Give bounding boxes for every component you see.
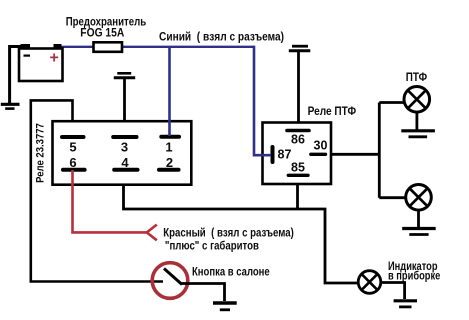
ground (indicator) xyxy=(394,301,417,307)
wire: button to ground xyxy=(181,284,225,302)
wire: pin 30 to lamps junction xyxy=(330,153,379,156)
pin 4 xyxy=(114,155,137,170)
svg-text:FOG 15A: FOG 15A xyxy=(80,27,124,39)
ground (button) xyxy=(213,303,237,310)
svg-text:4: 4 xyxy=(121,155,129,170)
wire: junction to lamp 2 xyxy=(379,196,406,199)
ground (lamp 1) xyxy=(401,131,435,137)
wire: junction to lamp 1 xyxy=(379,101,405,104)
svg-text:85: 85 xyxy=(291,161,305,175)
wire: indicator to ground xyxy=(381,283,405,300)
svg-text:3: 3 xyxy=(121,140,128,155)
relay K2 ПТФ box xyxy=(263,123,332,185)
wire: blue drop to relay ПТФ pin 87 xyxy=(254,46,271,156)
pin 86 xyxy=(287,131,309,147)
pin 30 xyxy=(311,139,328,155)
wire: pin 3 up to power tap xyxy=(123,79,126,137)
svg-text:87: 87 xyxy=(278,148,292,162)
wire: relay pin 5 to cabin button xyxy=(31,100,163,281)
pin 85 xyxy=(288,161,308,176)
svg-text:6: 6 xyxy=(69,155,76,170)
wire: battery negative to ground xyxy=(10,47,21,104)
wire: red from pin 6 xyxy=(73,170,148,232)
power tap symbol above relay ПТФ pin 86 xyxy=(289,46,311,51)
fuse FOG 15A xyxy=(94,42,123,52)
wire: blue drop to relay pin 1 xyxy=(168,47,171,136)
svg-text:"плюс" с габаритов: "плюс" с габаритов xyxy=(165,241,259,253)
pin 2 xyxy=(159,155,179,170)
svg-text:1: 1 xyxy=(165,140,172,155)
pin 1 xyxy=(161,137,179,155)
relay K1 23.3777 box xyxy=(53,121,192,185)
wire: blue supply from battery + through fuse xyxy=(56,46,254,48)
svg-text:Кнопка в салоне: Кнопка в салоне xyxy=(192,266,270,278)
wire: pin 4 / pin 85 to indicator xyxy=(124,168,359,283)
power tap symbol above pin 3 xyxy=(114,73,135,78)
lamp HL1 (fog lamp top) xyxy=(404,87,430,113)
ground (battery) xyxy=(1,104,20,108)
red arrowhead xyxy=(147,225,157,241)
ground (lamp 2) xyxy=(402,229,436,235)
wire: power tap down to pin 86 xyxy=(297,52,300,131)
pin 6 xyxy=(63,155,85,170)
pin 87 xyxy=(273,147,292,162)
svg-text:30: 30 xyxy=(314,139,328,153)
svg-text:Реле ПТФ: Реле ПТФ xyxy=(308,106,357,118)
wire: lamp 2 to ground xyxy=(417,210,420,228)
svg-text:+: + xyxy=(50,50,59,67)
wire: lamps junction vertical xyxy=(378,103,381,198)
svg-text:2: 2 xyxy=(166,155,173,170)
svg-text:ПТФ: ПТФ xyxy=(406,72,427,84)
wire: pin 85 down to junction xyxy=(296,176,299,209)
indicator lamp HL3 xyxy=(358,271,381,294)
pin 3 xyxy=(113,137,136,155)
svg-text:86: 86 xyxy=(291,133,305,147)
lamp HL2 (fog lamp bottom) xyxy=(406,185,432,211)
svg-text:5: 5 xyxy=(69,140,76,155)
battery GB1 xyxy=(19,44,63,81)
switch button (Кнопка в салоне) xyxy=(152,263,188,299)
pin 5 xyxy=(62,137,84,155)
wire: lamp 1 to ground xyxy=(415,111,418,130)
svg-text:Красный ( взял с разъема): Красный ( взял с разъема) xyxy=(163,228,294,240)
svg-text:в приборке: в приборке xyxy=(388,271,440,283)
svg-text:Реле 23.3777: Реле 23.3777 xyxy=(35,123,47,183)
svg-text:Синий ( взял с разъема): Синий ( взял с разъема) xyxy=(159,32,284,44)
